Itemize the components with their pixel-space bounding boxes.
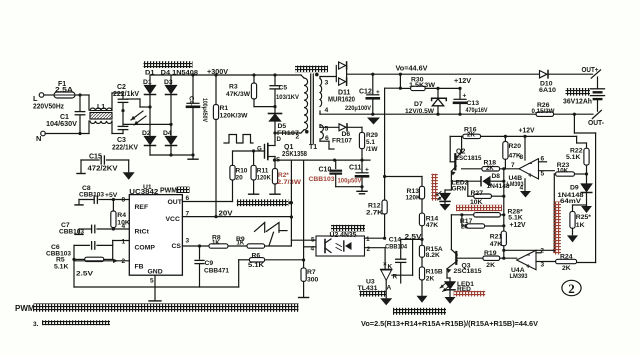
svg-text:10K: 10K: [557, 167, 569, 174]
svg-text:6: 6: [325, 135, 329, 142]
resistor R6: [239, 253, 304, 270]
svg-text:222/1kV: 222/1kV: [113, 91, 139, 98]
svg-text:C11: C11: [349, 165, 362, 172]
svg-text:C15: C15: [89, 154, 102, 161]
resistor R26: [532, 102, 594, 116]
label PWM control: [160, 187, 190, 195]
svg-text:5.1K: 5.1K: [248, 262, 264, 269]
svg-text:472/2KV: 472/2KV: [88, 165, 118, 172]
capacitor C12: [345, 74, 380, 116]
svg-text:220V50Hz: 220V50Hz: [33, 104, 64, 111]
svg-text:D3: D3: [164, 79, 173, 86]
wire: CS sense vertical: [290, 160, 293, 246]
capacitor C10: [309, 160, 363, 187]
svg-text:R15B: R15B: [426, 268, 443, 275]
svg-text:C5: C5: [279, 85, 288, 92]
svg-text:GND: GND: [148, 268, 163, 275]
svg-text:2: 2: [367, 246, 371, 253]
svg-text:R24: R24: [560, 254, 573, 261]
svg-text:CBB103: CBB103: [59, 229, 84, 236]
resistor R18: [462, 159, 519, 172]
switch OUT+: [591, 70, 600, 89]
wire: Vo sense tap: [385, 74, 402, 90]
svg-text:R7: R7: [307, 269, 316, 276]
svg-text:2.5A: 2.5A: [55, 87, 73, 94]
battery 36V12Ah: [563, 88, 605, 111]
svg-text:120K: 120K: [406, 194, 421, 201]
wire: R23 left vertical: [553, 174, 555, 250]
svg-text:OUT: OUT: [168, 199, 183, 206]
svg-text:Vo=2.5(R13+R14+R15A+R15B)/(R15: Vo=2.5(R13+R14+R15A+R15B)/(R15A+R15B)=44…: [361, 321, 538, 328]
resistor R8: [209, 234, 228, 248]
svg-text:1.5K3W: 1.5K3W: [409, 82, 436, 89]
svg-text:D11: D11: [338, 90, 351, 97]
transformer T1 primary winding: [296, 75, 308, 141]
resistor R5: [54, 257, 113, 271]
ground: C15 arrow: [123, 172, 135, 180]
svg-text:2.5V: 2.5V: [76, 271, 94, 278]
capacitor C5: [270, 75, 299, 107]
label photo isolation (CJK): [330, 225, 366, 239]
capacitor C4: [187, 75, 208, 155]
wire: AC to bridge node 1: [127, 99, 152, 109]
wire: COMP row: [113, 241, 130, 260]
resistor R29: [359, 127, 378, 160]
svg-text:COMP: COMP: [135, 245, 156, 252]
svg-text:−: −: [526, 250, 531, 259]
svg-text:D4: D4: [163, 130, 172, 137]
diode D5: [269, 107, 300, 137]
svg-text:R4: R4: [117, 212, 126, 219]
resistor R4: [111, 200, 130, 230]
svg-text:5.1: 5.1: [366, 139, 375, 146]
ground: LED1 arrow: [445, 291, 456, 304]
svg-text:100μ50V: 100μ50V: [338, 178, 363, 185]
svg-text:+12V: +12V: [510, 220, 526, 229]
IC U1 UC3842 box: [129, 184, 182, 275]
svg-text:104/630V: 104/630V: [46, 121, 77, 128]
capacitor C3: [112, 126, 138, 151]
svg-text:2: 2: [568, 281, 575, 296]
resistor R12: [366, 200, 387, 217]
wire: bottom 2.5V rail: [74, 260, 239, 287]
resistor R10: [230, 151, 248, 182]
ground: R25 arrow: [567, 235, 578, 242]
svg-text:2K: 2K: [486, 262, 495, 269]
resistor R9: [236, 236, 265, 248]
svg-text:2SC1815: 2SC1815: [454, 268, 482, 275]
svg-text:2: 2: [540, 247, 544, 254]
ground: C12 arrow: [367, 118, 380, 125]
waveform: gate drive square wave: [224, 135, 253, 144]
svg-text:K: K: [388, 264, 393, 271]
svg-text:CBB103: CBB103: [309, 176, 335, 183]
svg-text:3: 3: [186, 238, 190, 245]
svg-text:RtCt: RtCt: [135, 229, 150, 236]
resistor R21: [490, 231, 507, 260]
wire: U4A pin2 row: [504, 249, 556, 252]
switch OUT-: [588, 110, 604, 127]
svg-text:120K: 120K: [257, 175, 271, 182]
svg-text:C14: C14: [389, 236, 402, 243]
diode D6: [332, 124, 362, 145]
svg-text:12V/0.5W: 12V/0.5W: [405, 108, 435, 115]
label +12V rail3: [510, 220, 526, 229]
transistor Q3: [447, 215, 482, 278]
svg-text:2: 2: [296, 134, 300, 141]
ground: U4B arrow: [520, 191, 531, 198]
svg-text:5: 5: [325, 126, 329, 133]
svg-text:+: +: [463, 93, 467, 100]
wire: RtCt row: [97, 227, 129, 230]
ground: LED2 arrow: [440, 203, 451, 211]
svg-text:R19: R19: [484, 250, 497, 257]
capacitor C8: [75, 185, 110, 205]
label trickle indicator vertical (CJK red): [431, 174, 438, 201]
svg-text:8.2K: 8.2K: [426, 252, 440, 259]
diode D1: [143, 75, 156, 107]
svg-text:FB: FB: [135, 264, 144, 271]
spark gap arrows: [131, 111, 146, 125]
wire: aux vertical to opto: [302, 160, 305, 262]
svg-text:PWM: PWM: [160, 188, 177, 195]
terminal N: [36, 131, 45, 143]
resistor R13: [406, 186, 425, 213]
svg-text:2SK1358: 2SK1358: [282, 151, 307, 158]
svg-text:UC3842: UC3842: [129, 189, 158, 196]
ground: TL431 arrow: [380, 298, 392, 305]
label output voltage adjust (CJK): [393, 308, 446, 315]
resistor R22: [566, 136, 589, 175]
wire: L1 outputs: [112, 93, 123, 134]
wire: sense divider vertical: [383, 88, 386, 200]
resistor R24: [556, 254, 577, 272]
label regulator control (CJK): [360, 291, 387, 297]
label title rectifier (CJK): [144, 61, 193, 68]
wire: +300V rail: [150, 73, 301, 76]
wire: 2.5V node: [401, 234, 424, 241]
op-amp U4B LM393: [507, 136, 555, 191]
bottom caption PWM sentence: [15, 303, 299, 313]
diode D8: [451, 173, 509, 190]
svg-text:D9: D9: [570, 185, 579, 192]
label trickle size adjust (CJK red): [456, 205, 502, 211]
label flyback output (CJK): [295, 66, 328, 73]
svg-text:5: 5: [311, 236, 315, 243]
resistor R23: [554, 162, 586, 176]
resistor R16: [463, 126, 481, 138]
resistor R25: [570, 205, 591, 235]
svg-text:U2 4N35: U2 4N35: [330, 232, 357, 239]
svg-text:+12V: +12V: [454, 76, 471, 85]
svg-text:R12: R12: [368, 203, 381, 210]
diode D9: [558, 174, 592, 206]
wire: REF +5V: [105, 192, 129, 201]
LED1 red charge indicator: [440, 278, 474, 293]
svg-text:470μ16V: 470μ16V: [466, 107, 488, 114]
capacitor C13: [454, 88, 488, 114]
svg-text:103/1KV: 103/1KV: [276, 94, 299, 101]
label +300V: [207, 67, 228, 76]
svg-text:D7: D7: [414, 101, 423, 108]
capacitor C6: [46, 242, 113, 258]
svg-text:2K: 2K: [461, 225, 469, 231]
label T1: [309, 144, 317, 151]
capacitor C11: [338, 160, 370, 188]
wire: OUT pin row: [182, 201, 232, 203]
svg-text:R25*: R25*: [576, 214, 591, 221]
wire: sense to opto pin1: [383, 214, 386, 240]
svg-text:R3: R3: [229, 84, 238, 91]
svg-text:2K: 2K: [486, 166, 494, 172]
svg-text:C1: C1: [60, 114, 69, 121]
svg-text:222/1KV: 222/1KV: [112, 145, 138, 152]
svg-text:2K: 2K: [426, 275, 435, 282]
resistor R30: [400, 77, 461, 91]
wire: R13 tap row: [385, 177, 422, 187]
resistor R11: [249, 151, 271, 194]
wire: +12V rail2: [450, 135, 576, 138]
label 220V50Hz: [33, 104, 64, 111]
svg-text:+: +: [365, 167, 369, 174]
svg-text:R10: R10: [236, 168, 248, 175]
label OUT+: [582, 65, 600, 74]
terminal L: [33, 93, 44, 103]
svg-text:+12V: +12V: [519, 126, 535, 135]
svg-text:/1W: /1W: [366, 146, 378, 153]
svg-text:G: G: [257, 146, 262, 153]
resistor R7: [299, 260, 319, 298]
svg-text:OUT-: OUT-: [588, 118, 604, 127]
svg-text:2.7/3W: 2.7/3W: [277, 179, 302, 186]
wire: VCC 20V rail: [182, 210, 291, 218]
svg-text:R1: R1: [220, 105, 229, 112]
wire: source node row: [273, 159, 370, 162]
label D1 D4 1N5408: [145, 70, 198, 77]
svg-text:N: N: [36, 134, 41, 143]
resistor R15B: [419, 267, 442, 295]
svg-text:120K/3W: 120K/3W: [220, 113, 249, 120]
svg-text:D8: D8: [492, 173, 501, 180]
wire: Vo output rail: [371, 73, 539, 76]
svg-text:D2: D2: [142, 130, 151, 137]
svg-text:FR107: FR107: [332, 138, 352, 145]
wire: FB node: [74, 245, 129, 287]
resistor R2 current sense: [270, 160, 302, 194]
svg-text:C12: C12: [359, 89, 372, 96]
capacitor C1: [46, 93, 85, 135]
wire: AC L input: [44, 95, 89, 110]
wire: AC N input: [45, 121, 89, 134]
svg-text:8: 8: [520, 154, 524, 161]
svg-text:CBB104: CBB104: [385, 244, 407, 251]
svg-text:300: 300: [307, 277, 319, 284]
transformer T1 core: [311, 74, 314, 144]
svg-text:C13: C13: [467, 100, 480, 107]
diode D4: [163, 124, 177, 155]
svg-text:+300V: +300V: [207, 67, 228, 76]
ground: C11: [357, 187, 367, 194]
pin numbers U1: [122, 195, 190, 285]
svg-text:CBB103: CBB103: [79, 192, 104, 199]
formula Vo: [361, 321, 538, 328]
transformer T1 secondary 5-6: [320, 125, 339, 149]
svg-text:−: −: [528, 159, 533, 168]
wire: snubber node: [254, 105, 277, 108]
diode D2: [142, 107, 156, 155]
capacitor C15: [77, 154, 129, 174]
svg-text:20V: 20V: [219, 210, 233, 217]
svg-text:R2*: R2*: [278, 172, 289, 179]
shunt regulator U3 TL431: [358, 239, 413, 297]
resistor R20: [503, 136, 521, 168]
optocoupler U2 4N35: [291, 236, 385, 256]
svg-text:3.: 3.: [33, 321, 39, 328]
ground: R15B arrow: [417, 296, 428, 303]
inductor L1 common-mode choke: [90, 104, 112, 123]
clipped caption line: [33, 320, 110, 328]
svg-text:+5V: +5V: [105, 192, 118, 199]
label Vo=44.6V: [396, 64, 429, 73]
transformer phase dot secondary: [315, 73, 319, 77]
svg-text:6: 6: [541, 156, 545, 163]
svg-text:L: L: [33, 94, 38, 103]
svg-text:R6: R6: [252, 253, 261, 260]
svg-text:GRN: GRN: [452, 186, 467, 193]
svg-text:R29: R29: [366, 132, 378, 139]
wire: OUT- sense line: [574, 114, 595, 262]
transistor Q2: [450, 136, 482, 190]
svg-text:220μ100V: 220μ100V: [345, 105, 372, 112]
resistor R17: [460, 215, 506, 231]
LED2 green: [435, 180, 469, 202]
svg-text:T1: T1: [309, 144, 317, 151]
resistor R1: [213, 75, 248, 217]
svg-text:D1: D1: [143, 79, 152, 86]
svg-text:47K: 47K: [490, 241, 503, 248]
resistor R3: [226, 75, 257, 107]
label +12V rail2: [519, 126, 535, 135]
svg-text:36V12Ah: 36V12Ah: [563, 97, 592, 106]
svg-text:7: 7: [511, 162, 515, 169]
circled number 2: [562, 280, 581, 296]
fuse F1: [54, 81, 75, 98]
svg-text:C9: C9: [205, 260, 214, 267]
resistor R14: [419, 213, 438, 239]
svg-text:5.1K: 5.1K: [566, 154, 580, 161]
svg-text:+: +: [526, 262, 531, 271]
diode D10: [539, 71, 593, 94]
svg-text:1K: 1K: [576, 222, 585, 229]
svg-text:C3: C3: [117, 137, 126, 144]
transformer phase dot primary: [305, 130, 309, 134]
svg-text:47K: 47K: [426, 222, 439, 229]
svg-text:3: 3: [325, 80, 329, 87]
svg-text:10K: 10K: [117, 220, 130, 227]
svg-text:OUT+: OUT+: [582, 65, 600, 74]
svg-text:2.7K: 2.7K: [366, 210, 383, 217]
svg-text:5: 5: [150, 278, 154, 285]
svg-text:×: ×: [383, 261, 387, 268]
svg-text:3: 3: [541, 262, 545, 269]
svg-text:0.15/3W: 0.15/3W: [532, 108, 556, 115]
svg-text:C10: C10: [319, 167, 332, 174]
label CC transition adjust vertical (CJK red): [553, 202, 561, 255]
svg-text:2SC1815: 2SC1815: [456, 155, 482, 162]
svg-text:D5: D5: [278, 123, 287, 130]
svg-text:1K: 1K: [212, 240, 220, 246]
svg-text:PWM: PWM: [15, 304, 35, 313]
svg-text:20: 20: [236, 175, 244, 182]
wire: primary ground rail: [150, 153, 195, 156]
wire: AC to bridge node 2: [123, 123, 173, 126]
capacitor C9: [195, 246, 229, 287]
svg-text:C2: C2: [117, 84, 126, 91]
svg-text:4: 4: [311, 246, 315, 253]
svg-text:2K: 2K: [467, 132, 475, 139]
label output current adjust (CJK): [237, 199, 292, 206]
capacitor C2: [113, 84, 139, 125]
op-amp U4A LM393: [510, 247, 556, 279]
resistor R27: [468, 181, 506, 206]
svg-text:1K: 1K: [237, 240, 245, 246]
svg-text:47K/3W: 47K/3W: [226, 91, 251, 98]
svg-text:+: +: [376, 89, 380, 96]
svg-text:L1: L1: [97, 104, 105, 111]
svg-text:2K: 2K: [562, 265, 571, 272]
wire: CS row: [182, 244, 291, 247]
svg-text:+: +: [528, 171, 533, 180]
svg-text:5: 5: [541, 171, 545, 178]
svg-text:CS: CS: [172, 243, 182, 250]
svg-text:1N4148: 1N4148: [487, 183, 510, 190]
wire: gate drive riser: [233, 149, 256, 201]
diode D3: [164, 75, 177, 124]
wire: comparator node J7: [502, 167, 505, 181]
resistor R19: [457, 250, 516, 269]
svg-text:Vo=44.6V: Vo=44.6V: [396, 64, 429, 73]
svg-text:5.1K: 5.1K: [54, 263, 68, 270]
transistor Q1 MOSFET: [233, 136, 307, 164]
wire: drain node: [273, 131, 299, 141]
svg-text:R20: R20: [509, 143, 522, 150]
resistor R28: [451, 196, 523, 221]
svg-text:CBB471: CBB471: [204, 267, 229, 274]
svg-text:64mV: 64mV: [560, 198, 582, 205]
dual diode D11 MUR1620: [328, 62, 373, 104]
resistor R15A: [419, 239, 442, 267]
svg-text:100μ450V: 100μ450V: [201, 98, 208, 123]
svg-text:REF: REF: [135, 204, 149, 211]
svg-text:1: 1: [122, 239, 126, 246]
svg-text:1: 1: [366, 236, 370, 243]
label +12V rail1: [454, 76, 471, 85]
svg-text:MUR1620: MUR1620: [328, 97, 355, 104]
svg-text:R27: R27: [471, 190, 484, 197]
svg-text:C4+: C4+: [187, 96, 194, 108]
waveform: sawtooth at CS: [255, 223, 288, 246]
svg-text:D: D: [277, 136, 282, 143]
svg-text:R11: R11: [257, 168, 269, 175]
svg-text:A: A: [387, 285, 392, 292]
svg-text:4: 4: [325, 107, 329, 114]
capacitor C7: [59, 222, 95, 236]
capacitor C14: [385, 236, 407, 283]
wire: secondary return rail: [320, 113, 536, 116]
svg-text:R: R: [393, 274, 398, 281]
transformer T1 secondary 3-4: [320, 77, 336, 115]
zener D7: [405, 88, 446, 115]
